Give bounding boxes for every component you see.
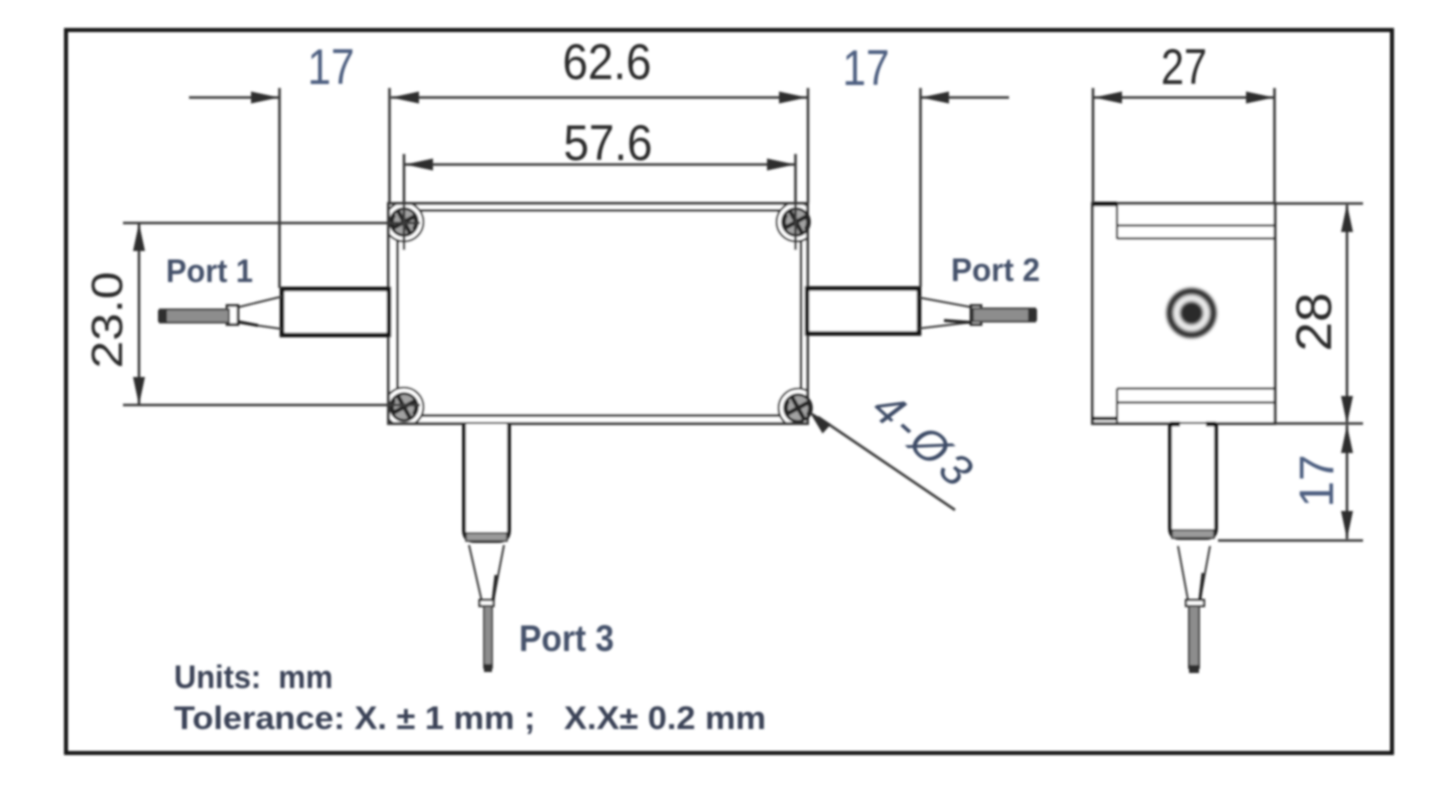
screw TR xyxy=(783,209,810,236)
ext line 28/17 right top xyxy=(1276,202,1363,205)
end view port barrel band xyxy=(1172,530,1214,538)
corner cutout around screw BL xyxy=(385,388,424,427)
corner cutout around screw BR xyxy=(779,389,818,428)
dim line 62.6 xyxy=(391,96,807,99)
corner cutout around screw TR xyxy=(777,203,816,242)
dim line 28 xyxy=(1346,205,1349,422)
port 1 barrel xyxy=(282,289,389,335)
arrowhead 4-d3 leader xyxy=(809,411,831,434)
ext line port2 end xyxy=(919,88,922,287)
dim line 23.0 xyxy=(138,224,141,404)
dim line 27 xyxy=(1094,96,1274,99)
dim line 17 right outside xyxy=(921,96,1009,99)
end view box xyxy=(1093,204,1276,424)
port 3 fiber pigtail xyxy=(484,606,492,668)
svg-text:17: 17 xyxy=(308,39,355,95)
end view ferrule taper xyxy=(1178,546,1210,600)
svg-text:28: 28 xyxy=(1286,293,1342,352)
screw BR xyxy=(785,395,812,422)
svg-text:17: 17 xyxy=(843,40,890,96)
port 3 ferrule taper xyxy=(469,545,504,602)
svg-text:17: 17 xyxy=(1291,455,1344,508)
svg-text:Port 2: Port 2 xyxy=(951,252,1040,288)
leader line 4-d3 xyxy=(818,417,955,510)
svg-text:57.6: 57.6 xyxy=(564,115,653,171)
dim line 57.6 xyxy=(405,163,795,166)
top-left lid step xyxy=(1093,202,1118,207)
top lid groove lines xyxy=(1117,204,1275,239)
ext lines 27 xyxy=(1093,88,1275,203)
fiber port circle xyxy=(1166,288,1217,339)
svg-text:Tolerance: X. ± 1 mm ; X.X±: Tolerance: X. ± 1 mm ; X.X± 0.2 mm xyxy=(174,700,766,736)
svg-text:Port 3: Port 3 xyxy=(519,618,614,659)
fiber port circle center xyxy=(1182,303,1201,322)
end view fiber pigtail xyxy=(1189,606,1199,668)
ext line screw TR column xyxy=(794,154,797,250)
port 1 ferrule taper xyxy=(237,297,282,330)
arrowheads 28 xyxy=(1341,204,1353,232)
ext line body right top xyxy=(807,88,810,203)
end view ferrule cap xyxy=(1186,600,1204,606)
ext line barrel bottom right xyxy=(1218,539,1363,542)
arrowheads 27 xyxy=(1094,92,1122,104)
port 2 ferrule taper xyxy=(919,298,973,329)
svg-text:Units: mm: Units: mm xyxy=(174,659,333,695)
port 3 barrel end band xyxy=(466,533,507,541)
dim line 17 left outside xyxy=(189,96,279,99)
ext lines 23.0 xyxy=(123,223,420,405)
port 3 barrel xyxy=(464,424,509,541)
ext line screw TL column xyxy=(403,154,406,250)
arrowheads 23.0 xyxy=(133,223,145,251)
svg-text:4-Ø3: 4-Ø3 xyxy=(863,381,986,499)
port 2 fiber pigtail xyxy=(973,309,1035,322)
dim line 17 vertical xyxy=(1346,425,1349,539)
fiber port circle white ring xyxy=(1177,298,1207,328)
ext line left of 17 dim xyxy=(278,88,281,288)
port 2 barrel xyxy=(807,289,919,334)
svg-text:62.6: 62.6 xyxy=(563,34,652,90)
arrowheads 17 vertical xyxy=(1341,425,1353,453)
port 3 ferrule cap xyxy=(480,600,494,606)
package body outline xyxy=(389,204,808,424)
corner cutout around screw TL xyxy=(385,203,424,242)
port 1 ferrule cap xyxy=(227,306,238,325)
bottom-left lid step xyxy=(1093,417,1118,420)
bottom lid groove lines xyxy=(1117,389,1275,424)
lid plate with notched corners xyxy=(398,211,802,416)
port 1 fiber pigtail xyxy=(160,310,229,323)
end view port barrel xyxy=(1170,424,1216,538)
svg-text:27: 27 xyxy=(1161,39,1207,95)
svg-text:Port 1: Port 1 xyxy=(166,253,253,289)
screw TL xyxy=(391,209,418,236)
ext line body left top xyxy=(388,88,391,203)
fiber port circle outer xyxy=(1166,288,1217,339)
svg-text:23.0: 23.0 xyxy=(83,272,132,369)
ext line box bottom right xyxy=(1276,422,1363,425)
port 2 ferrule cap xyxy=(971,306,981,325)
arrowheads top dims xyxy=(251,92,279,104)
body outline redraw xyxy=(389,204,808,424)
screw BL xyxy=(391,394,418,421)
